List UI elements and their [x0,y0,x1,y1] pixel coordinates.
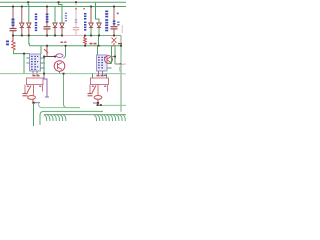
junction dots on y105.4 [97,104,99,106]
faint label col x65.5 [65,13,67,22]
U1 top pin wire [40,46,42,54]
wire Q3 to bottom [33,103,35,126]
diode D2 [27,23,31,28]
purple staircase wiring [41,74,49,97]
capacitor C4 lead bottom [113,29,115,36]
label PWR+24V vertical 2 [84,13,86,31]
U2 bottom pins purple [99,71,103,75]
bottom bus line 1 right part [67,107,80,109]
ground/mid net wire left segment [13,35,62,37]
capacitor C2 label [46,14,49,23]
U1 right pins [41,58,46,68]
transistor Q3 ellipse [28,96,36,100]
capacitor C4 [111,27,118,29]
diode D5 [89,23,93,28]
capacitor C3 faint [73,28,79,30]
diode D1 [20,23,24,28]
capacitor C3 faint lead [75,2,77,27]
K2 left leg [89,85,91,94]
pin number text under net [104,75,106,77]
R2 bottom lead [84,44,86,47]
diode D4 [60,23,64,28]
connector pin hooks group B [94,115,126,121]
diode D3 [53,23,57,28]
U1 bottom pins purple [33,71,37,75]
wire R1 bottom [14,50,31,54]
wire vertical x24 to bottom bus [23,54,25,74]
Q2 right stub [112,56,115,58]
K1 leg cap bars [23,94,28,96]
wire mid net to right edge vertical [114,35,121,37]
ground/mid net wire faint segment [62,35,84,37]
red dot on y45.7 [112,45,114,46]
purple tick 2 [93,102,97,104]
label PWR+5V vertical [35,14,37,32]
wire diode D1 lead top [21,7,23,24]
bottom bus line 1 [39,104,81,108]
capacitor C1 label [12,19,15,27]
wire x115 vertical [114,46,116,64]
Q1 right wire to net [64,46,66,59]
red tick end [120,63,122,65]
resistor R2 zigzag [84,37,87,46]
faint pink element right edge [121,25,123,33]
R2 top lead [84,36,86,37]
capacitor C4 lead top [113,7,115,27]
transistor Q1 area: dark link wire [44,56,55,58]
transistor Q4 ellipse [94,96,102,100]
Q1 red diagonal [44,49,48,53]
wire diode D3 lead bottom [54,28,56,36]
U2 right pins [107,64,112,69]
purple tick [35,102,41,104]
IC U2 box [97,55,108,71]
red label near U2 [90,43,97,45]
red dash on wire [118,43,122,44]
power rail bus second [0,6,126,8]
wire R1 top to mid net [12,36,14,41]
Q2 internals [107,57,111,62]
wire vertical x63.5 from net y73.6 [64,74,68,108]
wire diode D6 lead top [96,2,100,23]
wire Q4 to bus [97,103,99,105]
relay K1 label red [33,75,40,77]
wire diode D3 lead top [54,7,56,24]
K1 pin number marks [27,86,29,87]
wire right edge long vertical [120,36,122,112]
wire diode D6 lead bottom [98,28,100,36]
Q3 lead down [32,100,34,103]
wire diode D2 lead top [27,2,30,23]
faint big circle right edge [120,64,130,74]
U2 top pin wire [97,46,99,55]
label PWR vertical 3 [105,11,108,32]
K2 right leg [107,85,109,92]
wire x44 down to bottom bus [43,57,45,74]
wire diode D4 lead top [59,2,63,23]
capacitor C1 lead top [12,7,14,29]
wire diode D2 lead bottom [28,28,30,36]
bottom horizontal net y73.6 [0,73,121,75]
capacitor C2 lead bottom [46,29,48,36]
Q1 label text [61,42,67,44]
bottom right bus line y105.4 [97,104,126,106]
capacitor C1 lead bottom [12,31,14,36]
K1 left leg [24,85,26,94]
capacitor C2 [44,27,51,29]
Q4 middle pin [97,85,99,96]
wire y64 to right [115,63,121,65]
transistor Q2 circle [105,56,113,64]
junction Q3 [32,102,34,104]
stray red dots under rail [75,8,77,9]
wire dropper to relay driver 2 [98,36,100,46]
bottom bus line 2 [40,111,103,125]
wire diode D5 lead top [90,7,92,24]
relay K1 box [27,78,44,85]
capacitor C3 faint lead bottom [75,30,77,36]
Q3 middle pin [33,85,35,96]
capacitor C2 lead top [46,7,48,27]
K2 pin number marks [92,86,94,87]
Q1 collector wire from y45.7 [46,46,48,57]
small ellipse above Q1 [56,54,63,58]
junction Q4 [97,102,99,104]
relay K2 box [91,78,109,85]
transistor Q1 circle [54,61,65,72]
Q4 lead down [97,100,99,103]
wire diode D4 lead bottom [61,28,63,36]
capacitor C4 label [113,21,116,25]
K1 right leg [42,85,44,92]
transistor Q3 diagonal [27,86,31,94]
wire dropper to relay driver 1 [28,36,31,46]
resistor R1 label [6,41,9,46]
diode D6 [97,23,101,28]
connector pin hooks group A [44,115,66,121]
junction dots [12,1,122,74]
relay K2 label red [97,75,104,77]
Q1 emitter wire to bus [59,71,61,73]
U1 left pins [27,58,30,63]
diode D7 crossed below C4 [112,38,117,44]
power rail bus top [0,1,126,3]
wire diode D5 lead bottom [90,28,92,36]
Q1 internals [58,63,63,70]
capacitor C3 faint label [75,19,77,23]
transistor Q4 diagonal [92,86,96,94]
wire diode D1 lead bottom [21,28,23,36]
ground/mid net wire right segment [84,35,121,37]
K2 leg cap bars [88,94,93,96]
capacitor C1 [10,29,17,31]
IC U1 box [30,54,41,71]
K2 top pin wires [93,74,107,78]
bottom bus line 3 [44,114,126,116]
cap C4 value text [117,22,119,26]
wire D7 to mid [113,43,115,46]
net wire horizontal y45.7 [30,45,122,47]
resistor R1 zigzag [12,40,15,50]
wire x111.5 riser [111,46,113,64]
